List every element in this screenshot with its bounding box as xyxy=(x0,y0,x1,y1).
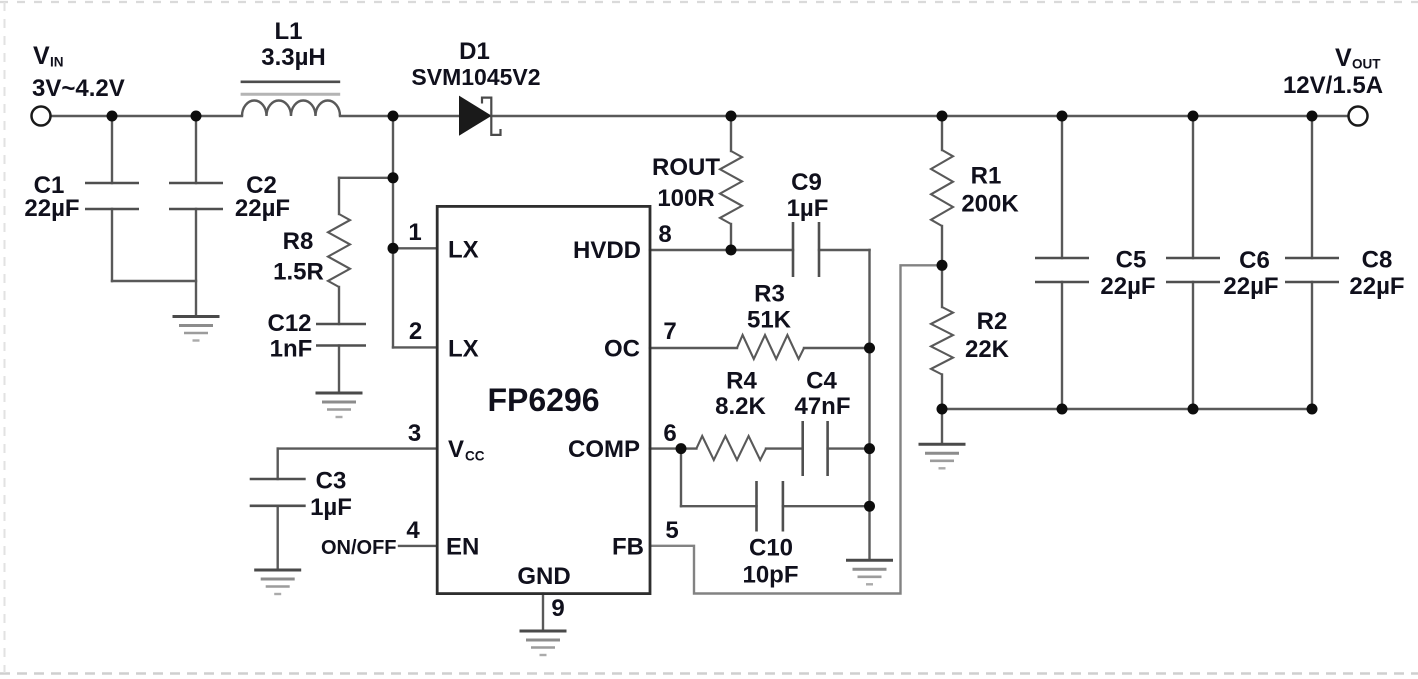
svg-text:22µF: 22µF xyxy=(1223,273,1278,300)
svg-text:SVM1045V2: SVM1045V2 xyxy=(411,64,540,90)
svg-text:CC: CC xyxy=(465,449,485,464)
svg-text:OUT: OUT xyxy=(1352,57,1381,72)
svg-text:8: 8 xyxy=(658,221,671,248)
svg-text:R4: R4 xyxy=(726,368,757,395)
svg-text:3: 3 xyxy=(408,420,421,447)
svg-text:ROUT: ROUT xyxy=(652,154,720,181)
svg-text:1.5R: 1.5R xyxy=(273,259,324,286)
svg-text:C6: C6 xyxy=(1239,247,1270,274)
svg-text:3.3µH: 3.3µH xyxy=(261,44,326,71)
svg-text:IN: IN xyxy=(50,55,64,70)
svg-text:V: V xyxy=(1335,44,1352,72)
svg-text:OC: OC xyxy=(604,336,640,363)
svg-text:47nF: 47nF xyxy=(794,393,850,420)
svg-text:100R: 100R xyxy=(657,185,714,212)
svg-text:C3: C3 xyxy=(316,468,347,495)
svg-text:FB: FB xyxy=(612,534,644,561)
svg-text:5: 5 xyxy=(665,517,678,544)
svg-text:3V~4.2V: 3V~4.2V xyxy=(32,75,125,102)
svg-text:C4: C4 xyxy=(806,368,837,395)
svg-text:EN: EN xyxy=(446,534,479,561)
svg-text:4: 4 xyxy=(406,517,420,544)
svg-text:1nF: 1nF xyxy=(270,336,313,363)
svg-text:8.2K: 8.2K xyxy=(715,393,766,420)
svg-text:C5: C5 xyxy=(1116,247,1147,274)
svg-text:C12: C12 xyxy=(267,310,311,337)
svg-text:22µF: 22µF xyxy=(24,195,79,222)
svg-text:R3: R3 xyxy=(754,281,785,308)
svg-text:200K: 200K xyxy=(961,191,1019,218)
svg-text:22µF: 22µF xyxy=(235,195,290,222)
svg-text:10pF: 10pF xyxy=(742,562,798,589)
svg-text:22µF: 22µF xyxy=(1100,273,1155,300)
svg-text:1µF: 1µF xyxy=(787,195,829,222)
svg-text:V: V xyxy=(448,436,464,463)
svg-text:FP6296: FP6296 xyxy=(487,382,599,418)
svg-text:D1: D1 xyxy=(459,38,490,65)
svg-text:51K: 51K xyxy=(747,307,792,334)
svg-text:R1: R1 xyxy=(971,163,1002,190)
svg-text:GND: GND xyxy=(517,563,570,590)
svg-text:6: 6 xyxy=(663,420,676,447)
svg-text:R8: R8 xyxy=(283,228,314,255)
svg-text:LX: LX xyxy=(448,237,479,264)
svg-text:22µF: 22µF xyxy=(1349,273,1404,300)
svg-text:COMP: COMP xyxy=(568,436,640,463)
svg-text:C8: C8 xyxy=(1362,247,1393,274)
svg-text:1: 1 xyxy=(408,219,421,246)
svg-text:22K: 22K xyxy=(965,336,1010,363)
svg-text:L1: L1 xyxy=(274,18,302,45)
svg-text:7: 7 xyxy=(663,318,676,345)
svg-text:1µF: 1µF xyxy=(310,494,352,521)
svg-text:C10: C10 xyxy=(749,535,793,562)
svg-text:ON/OFF: ON/OFF xyxy=(321,537,397,559)
svg-text:9: 9 xyxy=(551,595,564,622)
svg-text:V: V xyxy=(33,42,50,70)
svg-text:LX: LX xyxy=(448,336,479,363)
svg-text:C9: C9 xyxy=(791,169,822,196)
svg-text:2: 2 xyxy=(409,318,422,345)
svg-text:R2: R2 xyxy=(977,308,1008,335)
svg-text:HVDD: HVDD xyxy=(573,237,641,264)
svg-text:12V/1.5A: 12V/1.5A xyxy=(1283,72,1383,99)
